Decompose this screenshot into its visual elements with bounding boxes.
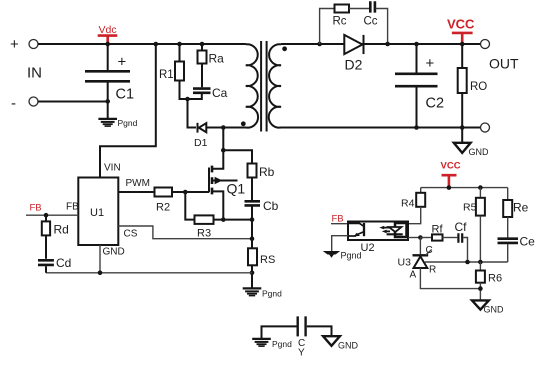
wire ground rail <box>46 272 252 274</box>
wire secondary top rail <box>281 43 481 45</box>
wire junction down to R3 <box>185 192 194 220</box>
node RO top junction <box>460 42 465 47</box>
wire input negative to C1 bottom <box>38 101 108 103</box>
wire R4 bottom to U2 <box>408 207 421 224</box>
resistor Rb <box>248 164 257 178</box>
snubber right leg <box>376 9 388 45</box>
svg-text:U2: U2 <box>361 242 375 254</box>
ground Pgnd (U2, filled) <box>323 251 340 258</box>
node RS bottom / ground rail junction <box>250 271 255 276</box>
svg-text:Rc: Rc <box>333 16 347 28</box>
capacitor Cd <box>38 260 54 265</box>
wire drain node branch <box>222 128 224 151</box>
svg-text:-: - <box>11 95 16 112</box>
U2 LED <box>389 227 402 232</box>
svg-text:R5: R5 <box>463 202 477 214</box>
diode D1 <box>199 123 207 132</box>
ground Pgnd (Y-cap) <box>252 339 271 346</box>
wire U2 bottom-right node <box>408 237 420 239</box>
shunt regulator U3 (TL431) <box>419 238 421 255</box>
svg-text:Pgnd: Pgnd <box>118 118 138 128</box>
svg-text:R6: R6 <box>488 273 502 285</box>
resistor R4 <box>420 188 422 193</box>
svg-text:VCC: VCC <box>441 161 461 172</box>
resistor R5 <box>479 188 481 198</box>
wire FB stub to U2 <box>331 223 348 225</box>
diode D2 <box>344 35 362 54</box>
capacitor C2 <box>416 44 418 73</box>
wire VIN route to U1 <box>100 44 156 178</box>
svg-text:Cd: Cd <box>56 256 71 270</box>
wire top main rail <box>38 43 246 45</box>
svg-text:Cc: Cc <box>364 16 378 28</box>
svg-text:Y: Y <box>298 348 305 359</box>
wire R2 to gate <box>172 191 209 193</box>
terminal + (input positive) <box>29 40 38 49</box>
ground GND (R6) <box>472 300 489 309</box>
resistor R3 <box>195 215 214 224</box>
capacitor Ce <box>498 239 519 243</box>
node gate/R3 junction <box>183 190 188 195</box>
svg-text:R4: R4 <box>401 198 415 210</box>
U2 phototransistor <box>348 223 364 226</box>
svg-text:Ra: Ra <box>209 52 225 66</box>
capacitor Cc <box>370 1 375 12</box>
svg-text:Pgnd: Pgnd <box>341 251 362 261</box>
terminal - (input negative) <box>29 97 38 106</box>
svg-text:VIN: VIN <box>104 163 121 174</box>
transformer T1 secondary winding <box>269 44 291 128</box>
svg-text:GND: GND <box>469 147 490 157</box>
svg-text:R: R <box>429 265 436 276</box>
svg-text:R2: R2 <box>156 202 170 214</box>
capacitor C1 <box>107 44 109 70</box>
ground Pgnd (below C1) <box>98 119 117 126</box>
ground Pgnd (below RS) <box>243 288 262 295</box>
resistor Rf <box>420 237 432 239</box>
svg-text:Pgnd: Pgnd <box>272 339 292 349</box>
terminal OUT- <box>481 123 490 132</box>
svg-text:Q1: Q1 <box>227 181 246 197</box>
resistor RO <box>461 44 463 68</box>
svg-text:C: C <box>426 245 433 256</box>
wire U1 GND pin down <box>99 245 101 273</box>
chip U1 (PWM controller) <box>78 178 118 246</box>
svg-text:GND: GND <box>338 341 359 351</box>
transformer primary polarity dot <box>241 121 246 126</box>
ground GND (Y-cap) <box>323 336 340 346</box>
svg-text:Pgnd: Pgnd <box>262 289 282 299</box>
wire PWM pin to R2 <box>118 191 154 193</box>
node C2 top junction <box>414 42 419 47</box>
svg-text:+: + <box>118 54 127 71</box>
svg-text:GND: GND <box>103 247 125 258</box>
svg-text:D1: D1 <box>194 137 208 149</box>
wire U3 anode <box>420 268 480 289</box>
node D1 / primary bottom junction <box>221 125 226 130</box>
svg-text:+: + <box>10 36 19 53</box>
svg-text:VCC: VCC <box>447 17 475 32</box>
svg-text:RO: RO <box>470 81 487 93</box>
wire Rc to Cc <box>349 8 369 10</box>
optocoupler U2 <box>348 222 408 241</box>
svg-text:FB: FB <box>332 214 344 225</box>
ground GND (output) <box>454 143 471 153</box>
resistor R1 <box>177 42 182 47</box>
node Vdc junction <box>105 42 110 47</box>
wire junction down to D1 <box>188 99 197 128</box>
svg-text:CS: CS <box>124 229 138 240</box>
resistor Re <box>507 188 509 200</box>
resistor Ra <box>200 42 205 47</box>
svg-text:R3: R3 <box>197 228 211 240</box>
transformer core <box>261 41 267 132</box>
wire CS route <box>118 226 252 239</box>
wire secondary bottom rail <box>281 127 481 129</box>
svg-text:U1: U1 <box>90 207 104 219</box>
svg-text:Ca: Ca <box>212 86 228 100</box>
svg-text:+: + <box>426 55 435 72</box>
svg-text:C1: C1 <box>116 87 135 103</box>
svg-text:A: A <box>410 270 417 281</box>
wire FB net <box>26 214 78 216</box>
svg-text:U3: U3 <box>398 257 412 269</box>
svg-text:Vdc: Vdc <box>99 24 117 36</box>
resistor RS <box>251 220 253 249</box>
node C1 bottom junction <box>105 99 110 104</box>
svg-text:Rd: Rd <box>54 223 69 237</box>
node U1 GND on rail <box>98 271 103 276</box>
svg-text:R1: R1 <box>159 69 174 81</box>
wire U2 bottom-left to Pgnd <box>332 236 348 251</box>
svg-text:Cf: Cf <box>455 220 468 234</box>
svg-text:Ce: Ce <box>520 235 536 249</box>
svg-text:FB: FB <box>30 203 42 214</box>
svg-text:PWM: PWM <box>126 178 150 189</box>
svg-text:D2: D2 <box>345 57 363 73</box>
node Cb bottom junction <box>250 217 255 222</box>
U2 LED package inner rect <box>395 223 407 237</box>
snubber left leg <box>317 42 322 47</box>
transformer secondary polarity dot <box>282 46 287 51</box>
svg-text:OUT: OUT <box>489 56 519 72</box>
svg-text:Rb: Rb <box>259 165 275 179</box>
U2 light arrows <box>382 228 390 232</box>
capacitor Ca <box>193 89 211 93</box>
node R1/Ca junction <box>185 97 190 102</box>
resistor R6 <box>479 262 481 271</box>
transistor Q1 (N-MOSFET) <box>213 150 224 169</box>
node CS/RS junction <box>250 236 255 241</box>
svg-text:FB: FB <box>66 202 79 213</box>
svg-text:C2: C2 <box>426 96 445 112</box>
capacitor Cf <box>458 233 462 242</box>
svg-text:Cb: Cb <box>263 199 279 213</box>
transformer T1 primary winding <box>223 44 258 128</box>
resistor R2 <box>155 188 173 197</box>
capacitor CY (Y-cap) <box>262 326 297 338</box>
svg-text:Re: Re <box>513 201 529 215</box>
terminal OUT+ <box>481 40 490 49</box>
node source junction <box>221 217 226 222</box>
svg-text:IN: IN <box>27 65 42 82</box>
svg-text:Rf: Rf <box>432 224 444 236</box>
resistor Rd <box>45 215 47 221</box>
wire R3 to source node <box>214 219 253 221</box>
capacitor Cb <box>245 201 261 205</box>
wire control VCC rail <box>421 187 508 189</box>
node VIN branch junction <box>154 42 159 47</box>
svg-text:GND: GND <box>484 305 505 315</box>
resistor Rc <box>335 5 350 13</box>
wire U3 R pin <box>425 261 508 263</box>
svg-text:RS: RS <box>260 254 275 266</box>
